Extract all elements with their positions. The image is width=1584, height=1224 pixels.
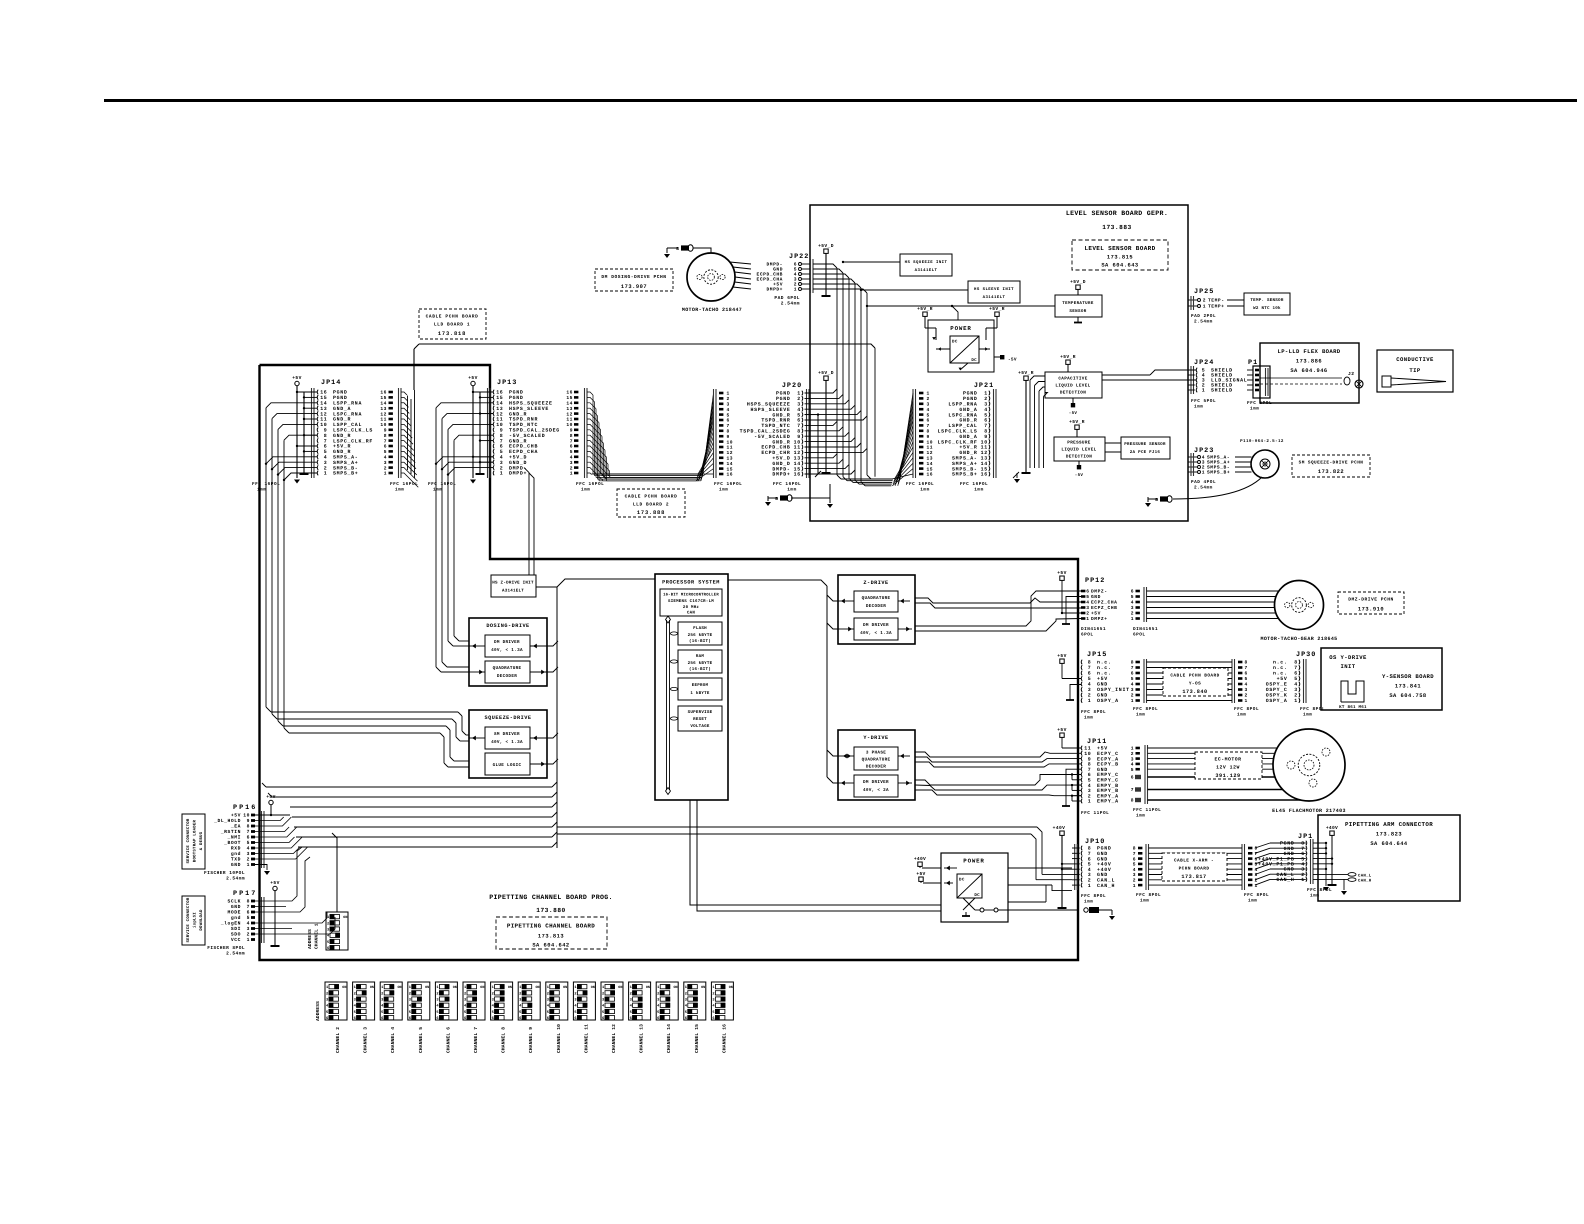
svg-text:CHANNEL 16: CHANNEL 16 [721,1024,727,1053]
svg-text:7: 7 [1133,851,1136,857]
svg-text:DMZ-DRIVE PCHN: DMZ-DRIVE PCHN [1348,597,1394,603]
svg-text:_BOOT: _BOOT [223,840,241,846]
svg-text:CAPACITIVE: CAPACITIVE [1058,377,1087,382]
svg-text:PP17: PP17 [233,890,257,898]
svg-text:CHANNEL 10: CHANNEL 10 [556,1024,562,1053]
svg-text:9: 9 [384,428,387,434]
svg-text:PGND: PGND [1280,841,1295,847]
svg-text:173.817: 173.817 [1181,874,1206,880]
svg-text:J2: J2 [1348,371,1355,377]
svg-text:173.813: 173.813 [538,934,564,940]
svg-text:ADDRESS: ADDRESS [315,1001,321,1021]
svg-text:ECPZ_CHA: ECPZ_CHA [1091,600,1117,606]
svg-text:3: 3 [927,402,930,408]
svg-text:1: 1 [1301,877,1305,883]
svg-text:SERVICE CONNECTOR: SERVICE CONNECTOR [186,897,191,942]
svg-text:Y-DRIVE: Y-DRIVE [863,735,888,741]
svg-text:5: 5 [570,449,573,455]
svg-text:FFC 8POL: FFC 8POL [1136,893,1161,898]
svg-text:DMPD+: DMPD+ [509,471,527,477]
svg-text:4: 4 [1294,682,1298,688]
svg-text:CHANNEL 15: CHANNEL 15 [694,1024,700,1053]
svg-text:HSPS_SQUEEZE: HSPS_SQUEEZE [747,402,791,408]
svg-text:LSPP_CAL: LSPP_CAL [948,423,977,429]
svg-text:4: 4 [1088,783,1092,789]
svg-text:4: 4 [500,455,504,461]
svg-text:+5V_R: +5V_R [333,444,351,450]
svg-text:VCC: VCC [231,937,241,943]
svg-text:9: 9 [324,428,328,434]
svg-text:1: 1 [1131,698,1134,704]
svg-text:+5V_D: +5V_D [509,455,527,461]
svg-text:ON: ON [480,985,484,990]
svg-text:LSPC_CLK_RF: LSPC_CLK_RF [938,439,978,445]
svg-text:n.c.: n.c. [1097,672,1112,677]
svg-text:SMPS_B-: SMPS_B- [333,465,358,471]
svg-text:ON: ON [674,985,678,990]
svg-text:173.907: 173.907 [621,284,647,290]
svg-text:8: 8 [1088,846,1092,852]
svg-text:1: 1 [1131,746,1134,752]
svg-text:6: 6 [927,418,930,424]
svg-text:SHIELD: SHIELD [1211,388,1233,394]
svg-text:GND: GND [1097,872,1108,878]
svg-text:GND: GND [1097,693,1108,699]
svg-text:16: 16 [794,472,801,478]
svg-text:8: 8 [1131,798,1134,804]
svg-text:16-BIT MICROCONTROLLER: 16-BIT MICROCONTROLLER [663,593,719,598]
svg-text:SCLK: SCLK [228,899,241,905]
svg-text:JP13: JP13 [497,379,517,387]
svg-text:6: 6 [657,1016,659,1021]
svg-text:FISCHER 10POL: FISCHER 10POL [204,870,245,876]
svg-text:SMPS_A-: SMPS_A- [333,455,358,461]
svg-text:8: 8 [570,433,573,439]
svg-text:ADDRESS: ADDRESS [307,929,313,949]
svg-text:QUADRATURE: QUADRATURE [862,758,891,763]
svg-text:10: 10 [794,439,801,445]
svg-text:LEVEL SENSOR BOARD: LEVEL SENSOR BOARD [1084,245,1155,252]
svg-text:LIQUID LEVEL: LIQUID LEVEL [1061,448,1096,453]
svg-text:GND: GND [1091,594,1101,600]
svg-text:EMPY_B: EMPY_B [1097,783,1119,789]
svg-text:TEMPERATURE: TEMPERATURE [1062,301,1094,306]
svg-text:16: 16 [981,472,988,478]
svg-text:2: 2 [712,991,714,996]
svg-text:DOSING-DRIVE: DOSING-DRIVE [486,623,529,629]
svg-text:2A PCE FJ16: 2A PCE FJ16 [1130,450,1161,455]
svg-text:CAN_L: CAN_L [1276,872,1294,878]
svg-text:EC-MOTOR: EC-MOTOR [1214,757,1241,763]
svg-text:12: 12 [927,450,934,456]
svg-text:+40V: +40V [914,856,926,862]
svg-text:CHANNEL 9: CHANNEL 9 [528,1027,534,1053]
svg-text:+40V: +40V [1097,862,1112,868]
svg-text:+5V: +5V [1057,653,1066,659]
svg-text:ON: ON [536,985,540,990]
svg-text:LSPC_CLK_RF: LSPC_CLK_RF [333,438,373,444]
svg-text:1: 1 [570,471,573,477]
svg-text:173.883: 173.883 [1102,224,1132,231]
svg-text:173.822: 173.822 [1318,469,1344,475]
svg-text:6: 6 [354,1016,356,1021]
svg-text:11: 11 [320,417,327,423]
svg-text:6: 6 [1133,856,1136,862]
svg-text:1: 1 [1294,698,1298,704]
svg-text:5: 5 [1294,676,1298,682]
svg-text:RESET: RESET [693,717,707,722]
svg-text:CHANNEL 3: CHANNEL 3 [363,1027,369,1053]
svg-text:DM DRIVER: DM DRIVER [863,780,889,785]
svg-text:7: 7 [1245,665,1248,671]
svg-text:HSPS_SQUEEZE: HSPS_SQUEEZE [509,401,553,407]
svg-text:15: 15 [496,395,503,401]
svg-text:1mm: 1mm [433,488,442,493]
svg-text:2: 2 [324,465,328,471]
svg-text:2: 2 [500,465,504,471]
svg-text:5: 5 [1086,594,1089,600]
svg-text:2.54mm: 2.54mm [781,301,800,307]
svg-text:8: 8 [324,433,328,439]
svg-text:16: 16 [496,390,503,396]
svg-text:3: 3 [1088,687,1092,693]
svg-text:A3141ELT: A3141ELT [502,589,524,594]
svg-text:12V 12W: 12V 12W [1216,765,1240,771]
svg-text:10: 10 [243,813,250,819]
svg-text:11: 11 [727,445,734,451]
svg-text:2: 2 [1203,298,1206,304]
svg-text:PGND: PGND [776,396,791,402]
svg-text:CHANNEL 11: CHANNEL 11 [583,1024,589,1053]
svg-text:SMPS_B-: SMPS_B- [952,466,977,472]
svg-text:7: 7 [984,423,988,429]
svg-text:FFC 16POL: FFC 16POL [714,482,742,487]
svg-text:14: 14 [496,401,503,407]
svg-text:2: 2 [1088,693,1092,699]
svg-text:GND_R: GND_R [333,449,351,455]
svg-text:-5V: -5V [1008,358,1017,363]
svg-text:7: 7 [570,438,573,444]
svg-text:1mm: 1mm [920,488,929,493]
svg-text:B: B [676,247,679,252]
svg-text:DC: DC [974,893,980,898]
svg-text:2: 2 [381,991,383,996]
svg-text:LSPP_RNA: LSPP_RNA [333,401,362,407]
svg-text:_EA: _EA [230,824,241,830]
svg-text:11: 11 [566,417,573,423]
svg-text:OS Y-DRIVE: OS Y-DRIVE [1329,654,1367,661]
svg-text:OSPY_A: OSPY_A [1266,698,1288,704]
svg-text:5: 5 [1088,862,1092,868]
svg-text:6: 6 [247,910,250,916]
svg-text:3: 3 [324,460,328,466]
svg-text:14: 14 [981,461,988,467]
svg-text:6: 6 [1131,671,1134,677]
svg-text:ON: ON [370,985,374,990]
svg-text:PIPETTING CHANNEL BOARD: PIPETTING CHANNEL BOARD [507,923,595,930]
svg-text:OSPY_E: OSPY_E [1266,682,1288,688]
svg-text:11: 11 [380,417,387,423]
svg-text:8: 8 [1088,660,1092,666]
svg-text:1: 1 [927,391,930,397]
svg-text:1mm: 1mm [719,488,728,493]
svg-text:3: 3 [1131,756,1134,762]
svg-text:15: 15 [380,395,387,401]
svg-text:CHANNEL 1: CHANNEL 1 [314,923,320,949]
svg-text:4: 4 [797,407,801,413]
svg-text:13: 13 [496,406,503,412]
svg-text:CHANNEL 14: CHANNEL 14 [666,1024,672,1053]
svg-text:6: 6 [630,1016,632,1021]
svg-text:8: 8 [384,433,387,439]
svg-text:9: 9 [727,434,730,440]
svg-text:7: 7 [247,829,250,835]
svg-text:10: 10 [727,439,734,445]
svg-text:14: 14 [320,401,327,407]
svg-text:SA 604.642: SA 604.642 [532,943,569,949]
svg-text:12: 12 [380,411,387,417]
svg-text:2: 2 [984,396,988,402]
svg-text:173.888: 173.888 [637,510,665,516]
svg-text:TSPD_NTC: TSPD_NTC [761,423,790,429]
svg-text:2: 2 [354,991,356,996]
svg-text:GND: GND [1097,682,1108,688]
svg-text:3: 3 [1255,872,1258,878]
svg-text:6: 6 [574,1016,576,1021]
svg-text:14: 14 [927,461,934,467]
svg-text:20 MHz: 20 MHz [683,605,700,610]
svg-text:40V, < 1.3A: 40V, < 1.3A [860,631,892,636]
svg-text:CABLE X-ARM -: CABLE X-ARM - [1174,859,1214,864]
svg-text:4: 4 [324,455,328,461]
svg-text:10: 10 [496,422,503,428]
svg-text:4: 4 [1131,682,1134,688]
svg-text:DIN41651: DIN41651 [1133,627,1158,632]
svg-text:2.54mm: 2.54mm [1194,320,1213,325]
svg-text:12: 12 [727,450,734,456]
svg-text:DM DOSING-DRIVE PCHN: DM DOSING-DRIVE PCHN [601,274,666,280]
svg-text:3: 3 [1245,687,1248,693]
svg-text:ON: ON [563,985,567,990]
svg-text:7: 7 [1294,665,1298,671]
svg-text:JP25: JP25 [1194,288,1214,296]
svg-text:6: 6 [984,418,988,424]
svg-text:OSPY_C: OSPY_C [1266,687,1288,693]
svg-text:+5V: +5V [1277,676,1288,682]
svg-text:2: 2 [657,991,659,996]
svg-text:CABLE PCHN BOARD: CABLE PCHN BOARD [1170,674,1219,679]
svg-text:+5V_R: +5V_R [989,306,1005,312]
svg-text:14: 14 [566,401,573,407]
svg-text:PCHN BOARD: PCHN BOARD [1179,867,1210,872]
svg-text:TEMP-: TEMP- [1208,298,1225,304]
svg-text:6: 6 [519,1016,521,1021]
svg-text:4: 4 [384,455,387,461]
svg-text:FFC 16POL: FFC 16POL [576,482,604,487]
svg-text:8: 8 [727,429,730,435]
svg-text:FFC 5POL: FFC 5POL [1191,399,1216,404]
svg-text:SERVICE CONNECTOR: SERVICE CONNECTOR [186,818,191,863]
svg-text:EMPY_B: EMPY_B [1097,788,1119,794]
svg-text:5: 5 [1133,862,1136,868]
svg-text:FFC 16POL: FFC 16POL [252,482,280,487]
svg-text:+5V: +5V [292,375,301,381]
svg-text:8: 8 [1088,762,1092,768]
svg-text:n.c.: n.c. [1273,661,1288,666]
svg-text:4: 4 [1255,867,1258,873]
svg-text:6: 6 [727,418,730,424]
svg-text:CAN_L: CAN_L [1358,873,1372,878]
svg-text:ON: ON [591,985,595,990]
svg-text:ECPD_CHA: ECPD_CHA [509,449,538,455]
svg-text:6: 6 [1255,856,1258,862]
svg-text:SM DRIVER: SM DRIVER [494,732,520,737]
svg-text:+5V_R: +5V_R [959,445,977,451]
svg-text:4: 4 [1131,600,1134,606]
svg-text:BOOTSTRAP LOADER: BOOTSTRAP LOADER [193,819,198,862]
svg-text:6: 6 [1088,772,1092,778]
svg-text:LSPC_CLK_LS: LSPC_CLK_LS [938,429,978,435]
svg-text:+40V: +40V [1097,867,1112,873]
svg-text:JP10: JP10 [1085,838,1105,846]
svg-text:1mm: 1mm [1310,894,1319,899]
svg-text:n.c.: n.c. [1273,666,1288,671]
svg-text:4: 4 [1133,867,1136,873]
svg-text:9: 9 [927,434,930,440]
svg-text:SDI: SDI [231,926,241,932]
svg-text:16: 16 [727,472,734,478]
svg-text:10: 10 [1084,751,1091,757]
svg-text:173.818: 173.818 [438,331,466,337]
svg-text:GND_R: GND_R [509,438,527,444]
svg-text:3: 3 [1086,605,1089,611]
svg-text:DECODER: DECODER [866,765,886,770]
svg-text:GND: GND [1097,856,1108,862]
svg-text:+40V: +40V [1326,825,1338,831]
svg-text:173.880: 173.880 [536,907,566,914]
svg-text:EEPROM: EEPROM [692,683,709,688]
svg-text:FFC 16POL: FFC 16POL [960,482,988,487]
svg-text:+5V: +5V [468,375,477,381]
svg-text:DMPD-: DMPD- [772,466,790,472]
svg-text:2: 2 [602,991,604,996]
svg-text:MOTOR-TACHO-GEAR 218645: MOTOR-TACHO-GEAR 218645 [1260,636,1337,642]
svg-text:KT 861 M61: KT 861 M61 [1339,705,1367,710]
svg-text:Y-OS: Y-OS [1189,682,1201,687]
svg-text:ECPY_C: ECPY_C [1097,751,1119,757]
svg-text:6: 6 [602,1016,604,1021]
svg-text:8: 8 [984,429,988,435]
svg-text:2: 2 [1245,693,1248,699]
svg-text:6: 6 [685,1016,687,1021]
svg-text:6: 6 [492,1016,494,1021]
svg-text:8: 8 [1245,660,1248,666]
svg-text:16: 16 [927,472,934,478]
svg-text:1: 1 [384,471,387,477]
svg-text:11: 11 [794,445,801,451]
svg-text:8: 8 [1133,846,1136,852]
svg-text:9: 9 [247,818,250,824]
svg-text:+5V_R: +5V_R [1060,354,1076,360]
svg-text:ECPD_CHB: ECPD_CHB [509,444,538,450]
svg-text:3: 3 [570,460,573,466]
svg-text:FFC 8POL: FFC 8POL [1081,710,1106,715]
svg-text:GND_A: GND_A [959,407,977,413]
svg-text:ON: ON [343,915,347,920]
svg-text:2: 2 [519,991,521,996]
svg-text:GND_R: GND_R [959,450,977,456]
svg-text:2: 2 [1131,693,1134,699]
svg-text:4: 4 [1086,600,1089,606]
svg-text:FFC 11POL: FFC 11POL [1133,808,1161,813]
svg-text:3: 3 [1131,687,1134,693]
svg-text:3: 3 [247,926,250,932]
svg-text:1: 1 [247,937,250,943]
svg-text:+5V_R: +5V_R [1018,370,1034,376]
svg-text:5: 5 [500,449,504,455]
svg-text:1: 1 [727,391,730,397]
svg-text:+5V: +5V [1057,727,1066,733]
svg-text:4: 4 [1131,762,1134,768]
svg-text:LSPC_RNA: LSPC_RNA [333,411,362,417]
svg-text:LP-LLD FLEX BOARD: LP-LLD FLEX BOARD [1277,348,1340,355]
svg-text:DC: DC [971,358,977,363]
svg-text:HS SLEEVE INIT: HS SLEEVE INIT [974,287,1014,292]
svg-text:5: 5 [1131,594,1134,600]
svg-text:1mm: 1mm [581,488,590,493]
svg-text:PGND: PGND [1097,846,1112,852]
svg-text:2: 2 [1131,751,1134,757]
svg-text:7: 7 [1131,665,1134,671]
svg-text:SM SQUEEZE-DRIVE PCHN: SM SQUEEZE-DRIVE PCHN [1299,461,1364,466]
svg-text:SMPS_A-: SMPS_A- [952,456,977,462]
svg-text:ECPY_A: ECPY_A [1097,756,1119,762]
svg-text:6: 6 [381,1016,383,1021]
svg-text:10: 10 [927,439,934,445]
svg-text:8: 8 [927,429,930,435]
svg-text:CAN_H: CAN_H [1276,877,1294,883]
svg-text:ON: ON [701,985,705,990]
svg-text:7: 7 [1301,846,1305,852]
svg-text:DMPZ+: DMPZ+ [1091,616,1108,622]
svg-text:15: 15 [981,466,988,472]
svg-text:TSPD_RNR: TSPD_RNR [761,418,790,424]
svg-text:9: 9 [984,434,988,440]
svg-text:2: 2 [1294,693,1298,699]
svg-text:+40V_P1_PB: +40V_P1_PB [1258,856,1294,862]
svg-text:GND: GND [1284,846,1295,852]
svg-text:6: 6 [797,418,801,424]
svg-text:ON: ON [508,985,512,990]
svg-text:FLASH: FLASH [693,626,707,631]
svg-text:+5V_D: +5V_D [772,456,790,462]
svg-text:7: 7 [1088,767,1092,773]
svg-text:Y-SENSOR BOARD: Y-SENSOR BOARD [1382,673,1434,680]
svg-text:2: 2 [409,991,411,996]
svg-text:CHANNEL 12: CHANNEL 12 [611,1024,617,1053]
svg-text:+40V: +40V [1053,825,1066,831]
svg-text:11: 11 [1084,746,1091,752]
svg-text:6: 6 [1088,671,1092,677]
svg-text:CAN: CAN [687,611,695,616]
svg-text:JP24: JP24 [1194,359,1214,367]
svg-text:PAD 4POL: PAD 4POL [1191,480,1216,485]
svg-text:LSPC_RNA: LSPC_RNA [948,412,977,418]
svg-text:6: 6 [247,835,250,841]
svg-text:+5V: +5V [1097,676,1108,682]
svg-text:OSPY_INIT: OSPY_INIT [1097,687,1130,693]
svg-text:GND_D: GND_D [509,460,527,466]
